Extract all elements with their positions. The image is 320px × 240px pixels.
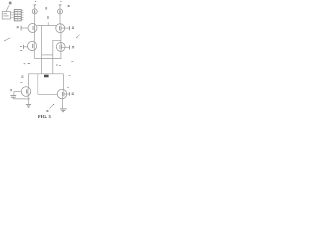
M4 output terminal bar <box>69 45 71 49</box>
M2 body lead right <box>61 27 69 29</box>
M5 gate lead <box>14 91 21 93</box>
numeral right of I1 <box>45 8 47 9</box>
capacitor C1 plates <box>11 95 17 97</box>
numeral above M6 <box>67 86 69 88</box>
numeral right of M6 <box>72 93 74 94</box>
M6 drain drop <box>62 74 64 89</box>
leader line to numeral 21 <box>6 5 9 11</box>
numeral right of M2 <box>72 27 74 28</box>
transistor M4 circle <box>56 43 65 52</box>
M4 gate jog wire <box>53 40 61 74</box>
numeral left of M1 terminal <box>17 27 19 28</box>
M6 drain stub <box>62 89 65 99</box>
I2 top stub <box>59 5 61 9</box>
M3 source drop <box>33 51 35 59</box>
wire I2 to M2 <box>59 14 61 24</box>
ground G1 bars <box>26 103 31 105</box>
leader arrow left mid <box>4 38 10 41</box>
striped box mid divider <box>17 10 19 21</box>
wire M2 to M4 <box>60 33 62 43</box>
wire W3 <box>42 54 53 56</box>
oscillator box 21 <box>2 12 10 19</box>
bus wires A-B <box>11 12 15 17</box>
M1 gate lead <box>21 27 28 29</box>
numeral above gate wire <box>47 17 49 18</box>
osc box inner mark <box>3 14 8 16</box>
leader arrow right mid <box>76 35 79 38</box>
wire I1 to M1 <box>34 14 36 24</box>
source rail <box>13 98 30 100</box>
M2 drain stub <box>60 24 62 33</box>
current source I2 circle <box>58 9 63 14</box>
M6 source drop <box>62 99 64 109</box>
striped box inner lines <box>14 12 21 19</box>
M4 gate bar <box>60 45 62 50</box>
transistor M2 circle <box>56 24 65 33</box>
cap to rail <box>12 97 14 99</box>
M5 drain stub <box>27 87 29 97</box>
I1 supply bar <box>33 4 36 6</box>
numeral left of M3 terminal <box>20 46 22 50</box>
svg-text:FIG. 3: FIG. 3 <box>38 114 52 119</box>
ground G2 bars <box>60 108 67 110</box>
M6 output terminal bar <box>69 92 71 96</box>
ground G1 drop <box>27 99 29 104</box>
wire gate node down (W2) <box>41 26 43 74</box>
M1 gate bar <box>33 26 35 31</box>
transistor M6 circle <box>57 89 67 99</box>
dark numeral under rail <box>44 75 49 78</box>
tail wire W5 <box>34 57 61 59</box>
numeral above M5 <box>20 82 22 84</box>
M5 gate down wire to cap <box>13 92 15 96</box>
current source I1 circle <box>32 9 37 14</box>
M4 body lead right <box>62 46 70 48</box>
M5 source drop to rail <box>27 96 29 99</box>
transistor M5 circle <box>21 87 31 97</box>
numeral 21 <box>9 2 12 4</box>
M3 input terminal bar <box>22 45 24 49</box>
M3 gate bar <box>33 44 35 49</box>
M6 gate riser <box>37 74 39 94</box>
striped box right stubs <box>21 10 23 19</box>
M1 input terminal bar <box>20 26 22 31</box>
M5 gate bar <box>26 89 28 94</box>
M3 gate lead <box>24 46 28 48</box>
numeral right edge low <box>71 61 73 63</box>
numeral near W2 elbow <box>24 63 30 65</box>
numeral right of I2 <box>68 5 70 6</box>
numeral left of M5 drain <box>21 76 23 77</box>
numeral near bottom arrow <box>46 110 48 111</box>
transistor M3 circle <box>27 41 36 50</box>
M6 gate lead <box>38 93 58 95</box>
M2 output terminal bar <box>69 26 71 30</box>
leader stub on gate wire <box>47 22 49 25</box>
numeral right of M4 <box>72 47 74 48</box>
M1 drain stub inside <box>34 24 36 33</box>
M6 body lead right <box>64 93 70 95</box>
striped box <box>14 10 21 21</box>
transistor M1 circle <box>28 24 37 33</box>
I1 arrow <box>34 10 36 13</box>
M5 drain drop <box>27 74 29 87</box>
I2 supply bar <box>59 4 62 6</box>
I2 arrow <box>59 10 61 13</box>
M4 source drop <box>60 52 63 59</box>
M2 gate bar <box>60 26 62 31</box>
numeral near M6 drain corner <box>69 74 71 76</box>
numeral left of cap wire <box>10 90 12 91</box>
I1 top stub <box>34 5 36 9</box>
gate wire M1-M2 <box>37 25 57 27</box>
numeral right mid low <box>56 64 61 67</box>
bottom rail wire <box>28 73 63 75</box>
wire M1 to M3 <box>33 33 35 42</box>
leader arrow bottom <box>50 104 54 108</box>
M6 gate bar <box>62 92 64 97</box>
I1 top dot <box>35 1 36 3</box>
I2 top dot <box>60 1 61 3</box>
M4 drain stub <box>60 43 62 52</box>
M3 drain stub <box>33 42 35 51</box>
